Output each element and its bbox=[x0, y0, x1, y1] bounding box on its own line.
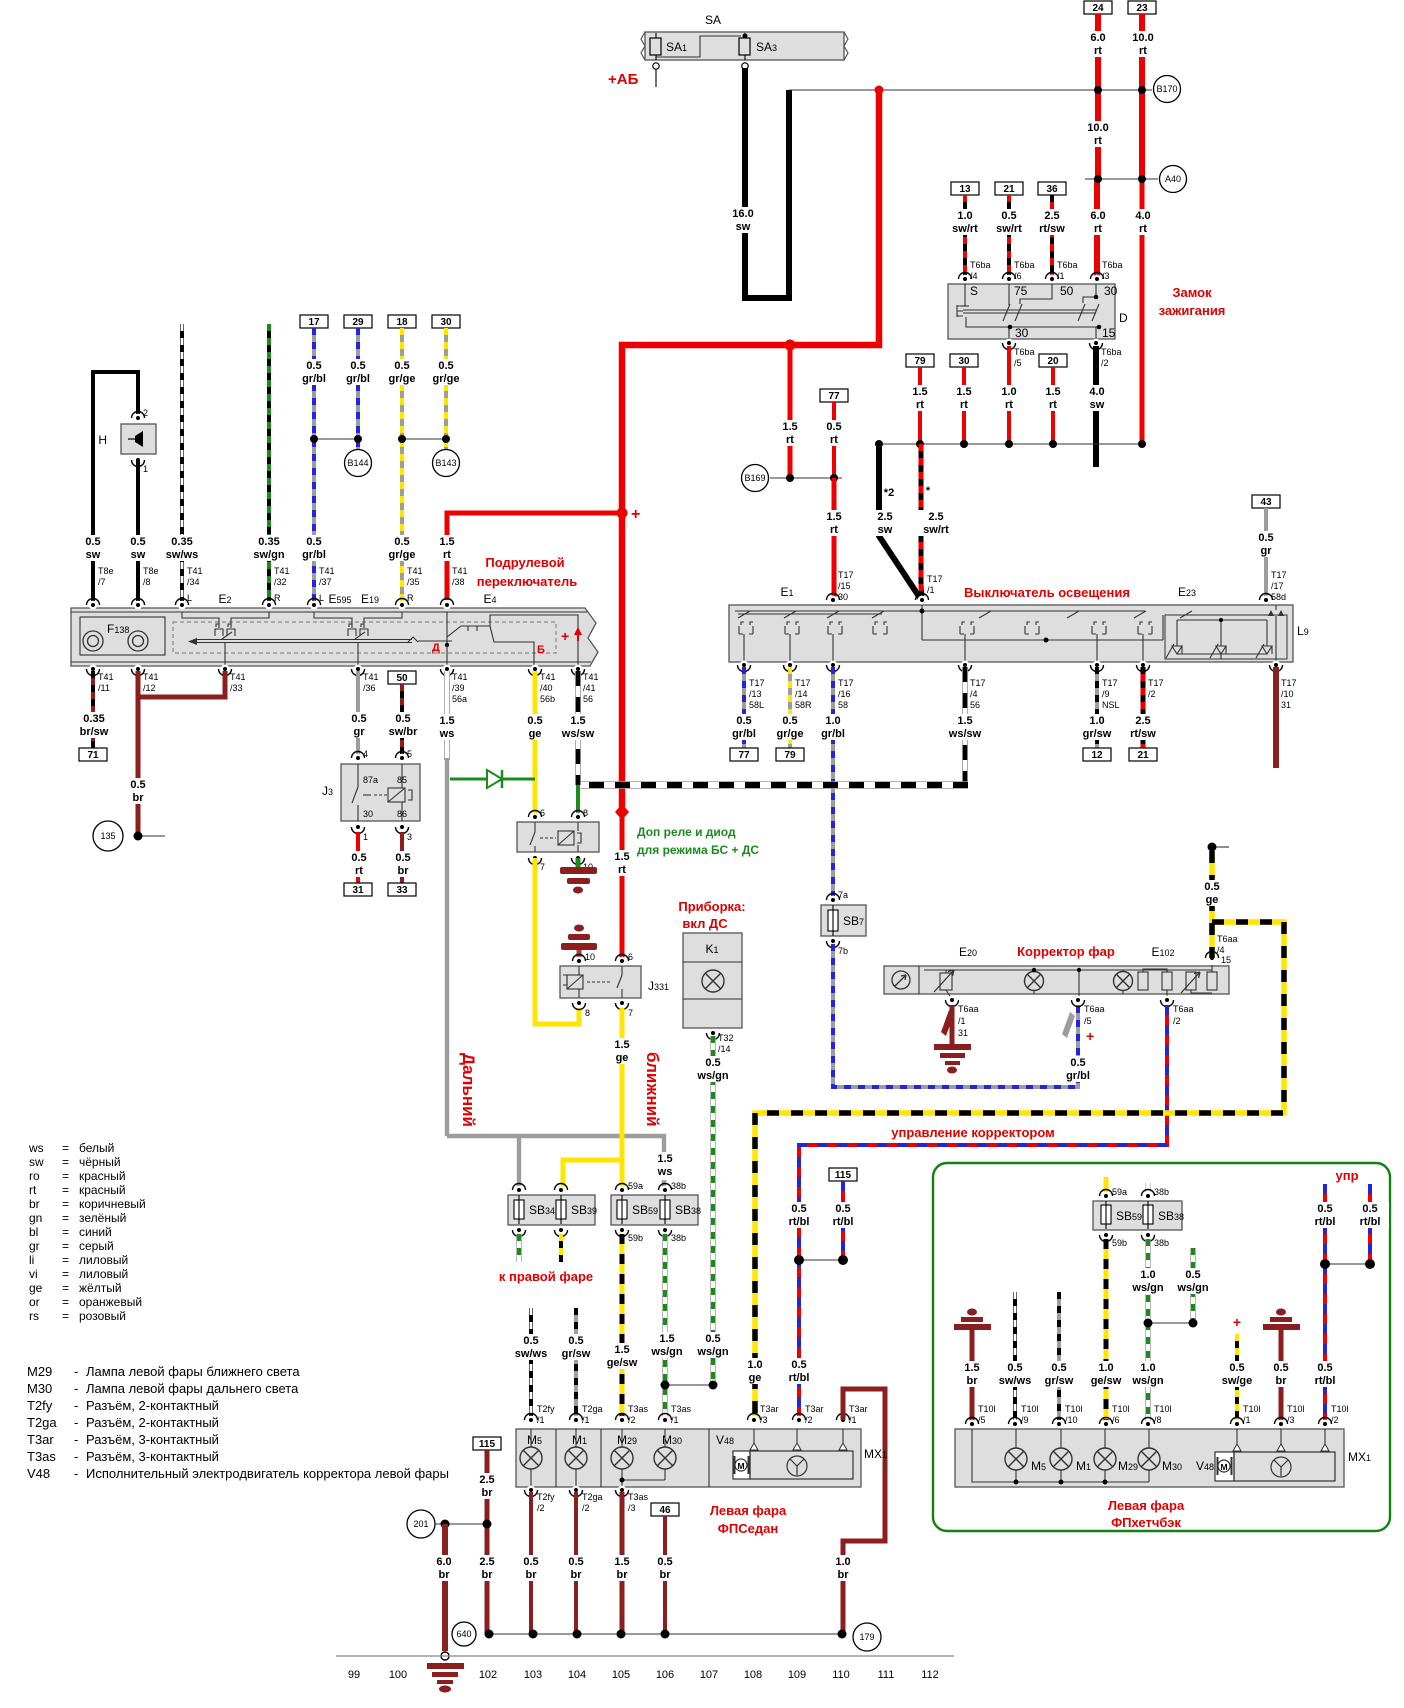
pin T17/2 bbox=[1137, 661, 1164, 699]
svg-text:T6ba: T6ba bbox=[1014, 260, 1035, 270]
node line B169 bbox=[770, 477, 842, 479]
svg-text:ws: ws bbox=[28, 1141, 44, 1155]
svg-text:sw: sw bbox=[878, 524, 893, 536]
ground below relay pin10 bbox=[560, 858, 597, 894]
svg-text:0.5: 0.5 bbox=[130, 779, 145, 791]
wire 0.5 ge corrector tee bbox=[755, 851, 1284, 1420]
svg-text:Разъём, 2-контактный: Разъём, 2-контактный bbox=[86, 1398, 219, 1413]
svg-text:T6aa: T6aa bbox=[1217, 934, 1238, 944]
svg-text:=: = bbox=[62, 1267, 69, 1281]
terminal B144 bbox=[345, 450, 372, 477]
svg-text:/7: /7 bbox=[98, 577, 106, 587]
svg-text:gr: gr bbox=[1261, 545, 1273, 557]
svg-text:SB34: SB34 bbox=[529, 1203, 555, 1217]
main feed wire rt from battery node bbox=[622, 90, 879, 812]
label 1.5 br hatch bbox=[957, 1361, 987, 1387]
svg-text:/37: /37 bbox=[319, 577, 332, 587]
wire 1.0 rt ignition30 to bus bbox=[1007, 346, 1011, 444]
svg-text:103: 103 bbox=[524, 1669, 542, 1681]
svg-text:sw/ge: sw/ge bbox=[1222, 1375, 1253, 1387]
svg-text:115: 115 bbox=[479, 1439, 496, 1450]
label 1.0 sw/rt bbox=[947, 209, 983, 235]
svg-text:Б: Б bbox=[537, 644, 545, 656]
junction dots top bbox=[875, 86, 884, 95]
pin T10l/5 bbox=[966, 1404, 996, 1428]
svg-text:J331: J331 bbox=[648, 979, 669, 993]
svg-text:красный: красный bbox=[79, 1169, 126, 1183]
ground bottom bbox=[427, 1652, 464, 1693]
connector tag 24 bbox=[1084, 1, 1112, 14]
svg-text:M: M bbox=[737, 1461, 744, 1471]
svg-text:58: 58 bbox=[838, 700, 848, 710]
wire 0.5 ws/gn stub bbox=[1190, 1248, 1195, 1323]
svg-text:T17: T17 bbox=[838, 570, 854, 580]
wire 0.5 rt fuse77 bbox=[832, 402, 836, 478]
label 0.35 sw/ws bbox=[162, 535, 202, 561]
wire 0.5 sw horn to switch bbox=[136, 460, 140, 605]
wire 1.5 ws/sw steering drop bbox=[575, 671, 581, 785]
svg-text:1.0: 1.0 bbox=[1001, 386, 1016, 398]
svg-text:6.0: 6.0 bbox=[436, 1556, 451, 1568]
svg-text:MX1: MX1 bbox=[1348, 1450, 1371, 1464]
svg-text:135: 135 bbox=[100, 831, 115, 841]
svg-text:T2fy: T2fy bbox=[27, 1398, 53, 1413]
svg-text:T6ba: T6ba bbox=[1014, 347, 1035, 357]
svg-text:1.5: 1.5 bbox=[964, 1362, 979, 1374]
label 16.0 sw bbox=[727, 207, 761, 233]
svg-text:B143: B143 bbox=[435, 458, 456, 468]
svg-text:50: 50 bbox=[1060, 284, 1074, 298]
svg-text:1.0: 1.0 bbox=[835, 1556, 850, 1568]
svg-text:ge/sw: ge/sw bbox=[1091, 1375, 1122, 1387]
svg-text:жёлтый: жёлтый bbox=[79, 1281, 122, 1295]
wire 1.5 rt fuse79 bbox=[918, 367, 922, 444]
svg-text:SB7: SB7 bbox=[843, 914, 864, 928]
svg-text:T2fy: T2fy bbox=[537, 1404, 555, 1414]
svg-text:ws/gn: ws/gn bbox=[1176, 1282, 1208, 1294]
wire 1.5 rt to steering T41/38 bbox=[447, 513, 622, 600]
svg-text:/40: /40 bbox=[540, 683, 553, 693]
svg-text:2.5: 2.5 bbox=[1044, 210, 1059, 222]
wire 0.5 sw horn loop bbox=[93, 372, 138, 605]
svg-text:0.5: 0.5 bbox=[438, 360, 453, 372]
wire 1.5 rt to J331 pin6 bbox=[620, 812, 625, 958]
wire 1.5 ge/sw SB59 to T3as2 bbox=[620, 1234, 625, 1420]
label 0.5 br bbox=[122, 778, 154, 804]
wire 10.0 rt fuse23 down bbox=[1139, 14, 1145, 179]
svg-text:59b: 59b bbox=[628, 1233, 643, 1243]
svg-text:0.5: 0.5 bbox=[351, 852, 366, 864]
svg-text:E4: E4 bbox=[483, 592, 496, 606]
svg-text:17: 17 bbox=[308, 317, 320, 328]
wire 0.35 sw/ws bbox=[180, 324, 184, 605]
wire 1.0 gr/bl to SB7 bbox=[831, 667, 835, 900]
svg-text:белый: белый bbox=[79, 1141, 114, 1155]
ground corrector bbox=[934, 1005, 971, 1074]
connector tag 29 bbox=[344, 315, 372, 328]
wire 0.5 br T2ga2 bbox=[574, 1492, 578, 1634]
bottom rail bbox=[336, 1655, 954, 1657]
svg-text:6.0: 6.0 bbox=[1090, 32, 1105, 44]
svg-text:rs: rs bbox=[29, 1309, 39, 1323]
svg-text:T10l: T10l bbox=[1021, 1404, 1039, 1414]
wire 1.5 ws from T41/39 bbox=[444, 671, 450, 760]
svg-text:sw: sw bbox=[131, 549, 146, 561]
svg-text:/2: /2 bbox=[1173, 1016, 1181, 1026]
svg-text:Доп реле и диод: Доп реле и диод bbox=[637, 825, 736, 839]
connector tag 20 bbox=[1039, 354, 1067, 367]
connector tag 79b bbox=[776, 748, 804, 761]
label 0.5 sw left bbox=[77, 535, 109, 561]
wire 1.5 ws/gn SB38 to T3as1 bbox=[662, 1234, 667, 1420]
svg-text:MX1: MX1 bbox=[864, 1447, 887, 1461]
svg-text:30: 30 bbox=[838, 592, 848, 602]
svg-text:201: 201 bbox=[413, 1519, 428, 1529]
wire 0.5 rt/bl upr right bbox=[1368, 1184, 1372, 1264]
svg-text:gr/sw: gr/sw bbox=[562, 1348, 591, 1360]
svg-text:1.0: 1.0 bbox=[747, 1359, 762, 1371]
svg-text:=: = bbox=[62, 1225, 69, 1239]
svg-text:br: br bbox=[439, 1569, 451, 1581]
terminal B143 bbox=[433, 450, 460, 477]
wire 0.5 gr/sw hatch bbox=[1057, 1292, 1061, 1424]
svg-text:0.5: 0.5 bbox=[568, 1556, 583, 1568]
pin T41/35 R bbox=[396, 566, 423, 609]
svg-text:2: 2 bbox=[143, 408, 148, 418]
svg-text:0.5: 0.5 bbox=[782, 715, 797, 727]
svg-text:=: = bbox=[62, 1141, 69, 1155]
svg-text:ФПСедан: ФПСедан bbox=[718, 1521, 778, 1536]
svg-text:T6aa: T6aa bbox=[1173, 1004, 1194, 1014]
svg-text:0.5: 0.5 bbox=[350, 360, 365, 372]
svg-text:ws/sw: ws/sw bbox=[561, 728, 595, 740]
wire 0.5 br T2fy2 bbox=[529, 1492, 533, 1634]
svg-text:6: 6 bbox=[540, 808, 545, 818]
svg-text:T41: T41 bbox=[540, 672, 556, 682]
svg-text:T8e: T8e bbox=[143, 566, 159, 576]
steering switch internals bbox=[173, 612, 582, 666]
svg-text:/1: /1 bbox=[958, 1016, 966, 1026]
terminal 640 bbox=[452, 1622, 476, 1646]
svg-text:br: br bbox=[660, 1569, 672, 1581]
svg-text:T41: T41 bbox=[407, 566, 423, 576]
svg-text:br: br bbox=[571, 1569, 583, 1581]
svg-text:ws/gn: ws/gn bbox=[650, 1346, 682, 1358]
pin T17/4 56 bbox=[959, 661, 986, 710]
diode for BS+DS bbox=[450, 770, 535, 788]
label 0.5 rt/bl upper bbox=[780, 1202, 818, 1228]
terminal B169 bbox=[742, 465, 769, 492]
svg-text:T17: T17 bbox=[927, 574, 943, 584]
svg-text:rt: rt bbox=[443, 549, 451, 561]
pin T10l/1 bbox=[1231, 1404, 1261, 1428]
connector tag 12 bbox=[1083, 748, 1111, 761]
svg-text:-: - bbox=[74, 1381, 78, 1396]
svg-text:rt: rt bbox=[916, 399, 924, 411]
svg-text:/5: /5 bbox=[1014, 358, 1022, 368]
svg-text:rt/bl: rt/bl bbox=[789, 1216, 810, 1228]
svg-text:rt: rt bbox=[786, 434, 794, 446]
svg-text:K1: K1 bbox=[705, 942, 718, 956]
svg-text:=: = bbox=[62, 1239, 69, 1253]
svg-text:gr/sw: gr/sw bbox=[1083, 728, 1112, 740]
pin T41/36 bbox=[352, 665, 379, 693]
svg-text:-: - bbox=[74, 1364, 78, 1379]
svg-text:E20: E20 bbox=[959, 945, 977, 959]
svg-text:красный: красный bbox=[79, 1183, 126, 1197]
svg-text:115: 115 bbox=[835, 1170, 852, 1181]
svg-text:=: = bbox=[62, 1309, 69, 1323]
svg-text:0.5: 0.5 bbox=[1362, 1203, 1377, 1215]
svg-text:/39: /39 bbox=[452, 683, 465, 693]
svg-text:2.5: 2.5 bbox=[479, 1474, 494, 1486]
svg-text:T10l: T10l bbox=[1331, 1404, 1349, 1414]
svg-text:0.5: 0.5 bbox=[306, 536, 321, 548]
svg-text:0.35: 0.35 bbox=[171, 536, 192, 548]
svg-text:ws/gn: ws/gn bbox=[1131, 1282, 1163, 1294]
svg-text:3: 3 bbox=[407, 832, 412, 842]
svg-text:Левая фара: Левая фара bbox=[1108, 1498, 1185, 1513]
ground hatch left bbox=[954, 1309, 991, 1425]
svg-text:0.35: 0.35 bbox=[83, 713, 104, 725]
connector tag 21 bbox=[1129, 748, 1157, 761]
svg-text:br: br bbox=[398, 865, 410, 877]
terminal A40 bbox=[1160, 166, 1187, 193]
svg-text:108: 108 bbox=[744, 1669, 762, 1681]
pin T10l/6 bbox=[1100, 1404, 1130, 1428]
wire 2.5 sw/rt to light switch bbox=[921, 444, 922, 598]
svg-text:/9: /9 bbox=[1102, 689, 1110, 699]
svg-text:E102: E102 bbox=[1151, 945, 1174, 959]
svg-text:Приборка:: Приборка: bbox=[678, 899, 745, 914]
svg-text:Разъём, 3-контактный: Разъём, 3-контактный bbox=[86, 1432, 219, 1447]
connector tag 30 bbox=[432, 315, 460, 328]
wire 1.5 rt to T17/15 bbox=[832, 478, 837, 600]
wire 2.5 rt/sw to 21 bbox=[1141, 667, 1146, 748]
svg-text:16.0: 16.0 bbox=[732, 208, 753, 220]
wire 1.0 ws/gn SB38h bbox=[1145, 1239, 1150, 1424]
svg-text:M1: M1 bbox=[1076, 1459, 1091, 1473]
svg-text:/8: /8 bbox=[1154, 1415, 1162, 1425]
svg-text:gr/bl: gr/bl bbox=[732, 728, 756, 740]
svg-text:1.5: 1.5 bbox=[957, 715, 972, 727]
svg-text:SB59: SB59 bbox=[632, 1203, 658, 1217]
svg-text:ws: ws bbox=[657, 1166, 673, 1178]
svg-text:T10l: T10l bbox=[1112, 1404, 1130, 1414]
svg-text:640: 640 bbox=[456, 1629, 471, 1639]
svg-text:/4: /4 bbox=[1217, 945, 1225, 955]
svg-text:1.5: 1.5 bbox=[614, 1556, 629, 1568]
svg-text:M1: M1 bbox=[572, 1433, 587, 1447]
svg-text:ws/sw: ws/sw bbox=[948, 728, 982, 740]
connector tag 30 bbox=[950, 354, 978, 367]
svg-text:Лампа левой фары дальнего свет: Лампа левой фары дальнего света bbox=[86, 1381, 299, 1396]
label 0.35 br/sw bbox=[74, 712, 114, 738]
label 0.5 gr/ge low bbox=[384, 535, 420, 561]
svg-text:T41: T41 bbox=[230, 672, 246, 682]
svg-text:46: 46 bbox=[659, 1505, 671, 1516]
wire 0.5 gr/bl fuse29 to B144 bbox=[356, 328, 360, 449]
svg-text:/5: /5 bbox=[1084, 1016, 1092, 1026]
svg-text:/2: /2 bbox=[805, 1415, 813, 1425]
pin T41/37 L bbox=[308, 566, 335, 609]
wire 0.5 sw/rt bbox=[1007, 195, 1011, 279]
svg-text:/36: /36 bbox=[363, 683, 376, 693]
svg-text:T41: T41 bbox=[98, 672, 114, 682]
svg-text:rt/bl: rt/bl bbox=[789, 1372, 810, 1384]
svg-text:Разъём, 2-контактный: Разъём, 2-контактный bbox=[86, 1415, 219, 1430]
svg-text:77: 77 bbox=[738, 750, 750, 761]
pin T8e/8 bbox=[132, 566, 159, 609]
svg-text:rt/bl: rt/bl bbox=[1315, 1216, 1336, 1228]
svg-text:M30: M30 bbox=[1162, 1459, 1182, 1473]
svg-text:ws/gn: ws/gn bbox=[696, 1070, 728, 1082]
svg-text:rt: rt bbox=[1139, 223, 1147, 235]
corrector motor V48 hatch bbox=[1196, 1429, 1335, 1481]
svg-text:/2: /2 bbox=[1331, 1415, 1339, 1425]
svg-text:ближний: ближний bbox=[643, 1052, 662, 1127]
svg-text:/5: /5 bbox=[978, 1415, 986, 1425]
node 135 bbox=[138, 835, 165, 837]
svg-text:к правой фаре: к правой фаре bbox=[499, 1269, 593, 1284]
wire 0.5 rt/bl corrector control bbox=[799, 1005, 1167, 1420]
svg-text:0.5: 0.5 bbox=[395, 713, 410, 725]
svg-text:0.5: 0.5 bbox=[394, 360, 409, 372]
svg-text:Разъём, 3-контактный: Разъём, 3-контактный bbox=[86, 1449, 219, 1464]
svg-text:0.5: 0.5 bbox=[523, 1335, 538, 1347]
svg-text:gr/bl: gr/bl bbox=[302, 549, 326, 561]
svg-text:30: 30 bbox=[440, 317, 452, 328]
svg-text:29: 29 bbox=[352, 317, 364, 328]
svg-text:T17: T17 bbox=[749, 678, 765, 688]
wire 0.5 gr/bl SB7 to corrector bbox=[833, 944, 1078, 1087]
svg-text:E19: E19 bbox=[361, 592, 379, 606]
label 0.5 sw/br bbox=[384, 712, 422, 738]
svg-text:B170: B170 bbox=[1156, 84, 1177, 94]
svg-text:R: R bbox=[274, 593, 281, 603]
svg-text:1.0: 1.0 bbox=[957, 210, 972, 222]
svg-text:br: br bbox=[838, 1569, 850, 1581]
svg-text:T17: T17 bbox=[1102, 678, 1118, 688]
connector tag 115 bbox=[829, 1168, 857, 1181]
svg-text:104: 104 bbox=[568, 1669, 586, 1681]
svg-text:SB38: SB38 bbox=[675, 1203, 701, 1217]
svg-text:оранжевый: оранжевый bbox=[79, 1295, 142, 1309]
svg-text:0.5: 0.5 bbox=[1007, 1362, 1022, 1374]
connector tag 77 bbox=[730, 748, 758, 761]
pin T6ba/6 bbox=[1003, 260, 1035, 283]
svg-text:107: 107 bbox=[700, 1669, 718, 1681]
wire 1.5 br T3as3 bbox=[620, 1492, 625, 1634]
svg-text:/3: /3 bbox=[760, 1415, 768, 1425]
svg-text:M29: M29 bbox=[617, 1433, 637, 1447]
svg-text:-: - bbox=[74, 1432, 78, 1447]
wire 0.5 ws/gn K1 down bbox=[710, 1036, 715, 1385]
pin T3ar/2 bbox=[793, 1404, 824, 1425]
wire 1.0 br T3ar1 loop bbox=[843, 1389, 885, 1634]
svg-text:179: 179 bbox=[859, 1632, 874, 1642]
svg-text:SA3: SA3 bbox=[756, 40, 777, 54]
svg-text:SA1: SA1 bbox=[666, 40, 687, 54]
svg-text:59a: 59a bbox=[1112, 1187, 1127, 1197]
svg-text:102: 102 bbox=[479, 1669, 497, 1681]
svg-text:99: 99 bbox=[348, 1669, 360, 1681]
pin T17/16 58 bbox=[827, 661, 854, 710]
svg-text:/2: /2 bbox=[1148, 689, 1156, 699]
svg-text:E2: E2 bbox=[218, 592, 231, 606]
shield flag T6aa5 bbox=[1062, 1012, 1075, 1038]
connector tag 33 bbox=[388, 883, 416, 896]
svg-text:зелёный: зелёный bbox=[79, 1211, 126, 1225]
svg-text:87a: 87a bbox=[363, 775, 378, 785]
pin T41/11 bbox=[87, 665, 114, 693]
svg-text:/2: /2 bbox=[582, 1503, 590, 1513]
light switch internals bbox=[738, 605, 1287, 662]
svg-text:56: 56 bbox=[583, 694, 593, 704]
connector tag 77 top bbox=[820, 389, 848, 402]
svg-text:L: L bbox=[319, 593, 324, 603]
wire 1.0 gr/sw to 12 bbox=[1095, 667, 1099, 748]
svg-text:серый: серый bbox=[79, 1239, 114, 1253]
svg-text:1.0: 1.0 bbox=[1098, 1362, 1113, 1374]
label 10.0 rt bbox=[1127, 31, 1159, 57]
svg-text:100: 100 bbox=[389, 1669, 407, 1681]
svg-text:*: * bbox=[926, 485, 931, 497]
pin T6ba/4 bbox=[959, 260, 991, 283]
lamp M1 hatch bbox=[1050, 1429, 1091, 1482]
lamp M29 bbox=[611, 1429, 633, 1487]
lamp M29 hatch bbox=[1094, 1429, 1138, 1482]
relay J331 bbox=[560, 952, 669, 1018]
pin T17/10 31 bbox=[1270, 661, 1297, 710]
svg-text:T41: T41 bbox=[452, 566, 468, 576]
junction + of feed bbox=[617, 508, 628, 519]
label 0.5 gr j3 bbox=[344, 712, 374, 738]
wire 6.0 rt fuse24 to node bbox=[1095, 14, 1101, 90]
svg-text:упр: упр bbox=[1335, 1168, 1358, 1183]
svg-text:gr/bl: gr/bl bbox=[821, 728, 845, 740]
svg-text:15: 15 bbox=[1102, 326, 1116, 340]
svg-text:ФПхетчбэк: ФПхетчбэк bbox=[1111, 1515, 1181, 1530]
svg-text:/9: /9 bbox=[1021, 1415, 1029, 1425]
svg-text:30: 30 bbox=[958, 356, 970, 367]
steering column switch box bbox=[71, 608, 598, 666]
svg-text:E1: E1 bbox=[780, 585, 793, 599]
svg-text:E595: E595 bbox=[328, 592, 351, 606]
svg-text:106: 106 bbox=[656, 1669, 674, 1681]
pin T41/40 56b bbox=[529, 665, 556, 704]
pin T6ba/3 bbox=[1091, 260, 1123, 283]
pin T6ba/2 bbox=[1090, 339, 1122, 368]
svg-text:для режима БС + ДС: для режима БС + ДС bbox=[637, 843, 759, 857]
svg-text:38b: 38b bbox=[1154, 1238, 1169, 1248]
svg-text:T8e: T8e bbox=[98, 566, 114, 576]
svg-text:gr/bl: gr/bl bbox=[302, 373, 326, 385]
headlight hatch box bbox=[955, 1429, 1344, 1487]
fuse box SB59 SB38 sedan bbox=[611, 1181, 701, 1243]
svg-text:L: L bbox=[187, 593, 192, 603]
svg-text:Замок: Замок bbox=[1172, 285, 1212, 300]
svg-text:B144: B144 bbox=[347, 458, 368, 468]
node line B143 bbox=[402, 438, 446, 440]
svg-text:/16: /16 bbox=[838, 689, 851, 699]
svg-text:/1: /1 bbox=[1057, 271, 1065, 281]
svg-text:Левая фара: Левая фара bbox=[710, 1503, 787, 1518]
svg-text:56b: 56b bbox=[540, 694, 555, 704]
svg-text:gr: gr bbox=[354, 726, 366, 738]
svg-text:-: - bbox=[74, 1449, 78, 1464]
svg-text:56a: 56a bbox=[452, 694, 467, 704]
